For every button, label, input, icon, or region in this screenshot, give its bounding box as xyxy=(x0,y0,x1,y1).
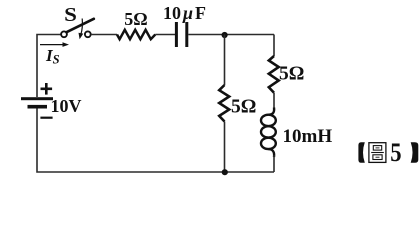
svg-text:5: 5 xyxy=(390,138,401,167)
source current arrow Is xyxy=(40,44,64,46)
resistor R3 5ohm right vertical zigzag xyxy=(269,56,279,93)
svg-text:S: S xyxy=(64,3,77,25)
wire right resistor to inductor xyxy=(273,93,275,110)
svg-text:10mH: 10mH xyxy=(283,126,333,147)
wire capacitor to node A and to right branch xyxy=(188,34,274,36)
node A junction dot (top) xyxy=(222,32,228,38)
capacitor C1 10uF left plate xyxy=(175,22,178,47)
switch S blade xyxy=(67,19,94,32)
battery V1 bottom plate (negative, short) xyxy=(28,105,48,109)
inductor L1 10mH coil xyxy=(268,108,274,115)
wire middle resistor to bottom node xyxy=(224,122,226,173)
wire node A down to middle resistor xyxy=(224,35,226,86)
switch closing motion arrow xyxy=(81,19,83,35)
svg-text:10V: 10V xyxy=(51,96,82,116)
svg-text:5Ω: 5Ω xyxy=(124,9,147,29)
wire inductor to bottom-right corner xyxy=(273,155,275,172)
wire switch to resistor R1 xyxy=(91,34,117,36)
label + xyxy=(41,88,53,91)
bottom junction dot xyxy=(222,169,228,175)
switch S right contact circle xyxy=(85,31,91,37)
wire top-left horizontal (battery top to switch) xyxy=(37,35,61,98)
battery V1 10V top plate (positive, long) xyxy=(21,97,53,100)
wire top-right corner down to right resistor xyxy=(273,35,275,57)
label - (minus) xyxy=(40,117,52,119)
capacitor C1 10uF right plate xyxy=(185,22,188,47)
resistor R2 5ohm middle vertical zigzag xyxy=(219,85,229,122)
wire battery bottom to bottom-left corner and bottom rail xyxy=(37,109,274,173)
caption CJK glyph (figure) xyxy=(369,143,386,163)
wire resistor to capacitor xyxy=(155,34,175,36)
svg-text:5Ω: 5Ω xyxy=(231,97,256,118)
svg-text:5Ω: 5Ω xyxy=(279,64,304,85)
switch S left contact circle xyxy=(61,31,67,37)
svg-text:10μF: 10μF xyxy=(163,3,206,23)
caption left lenticular bracket xyxy=(358,142,364,163)
resistor R1 5ohm horizontal zigzag xyxy=(117,30,155,39)
caption right lenticular bracket xyxy=(411,142,419,163)
